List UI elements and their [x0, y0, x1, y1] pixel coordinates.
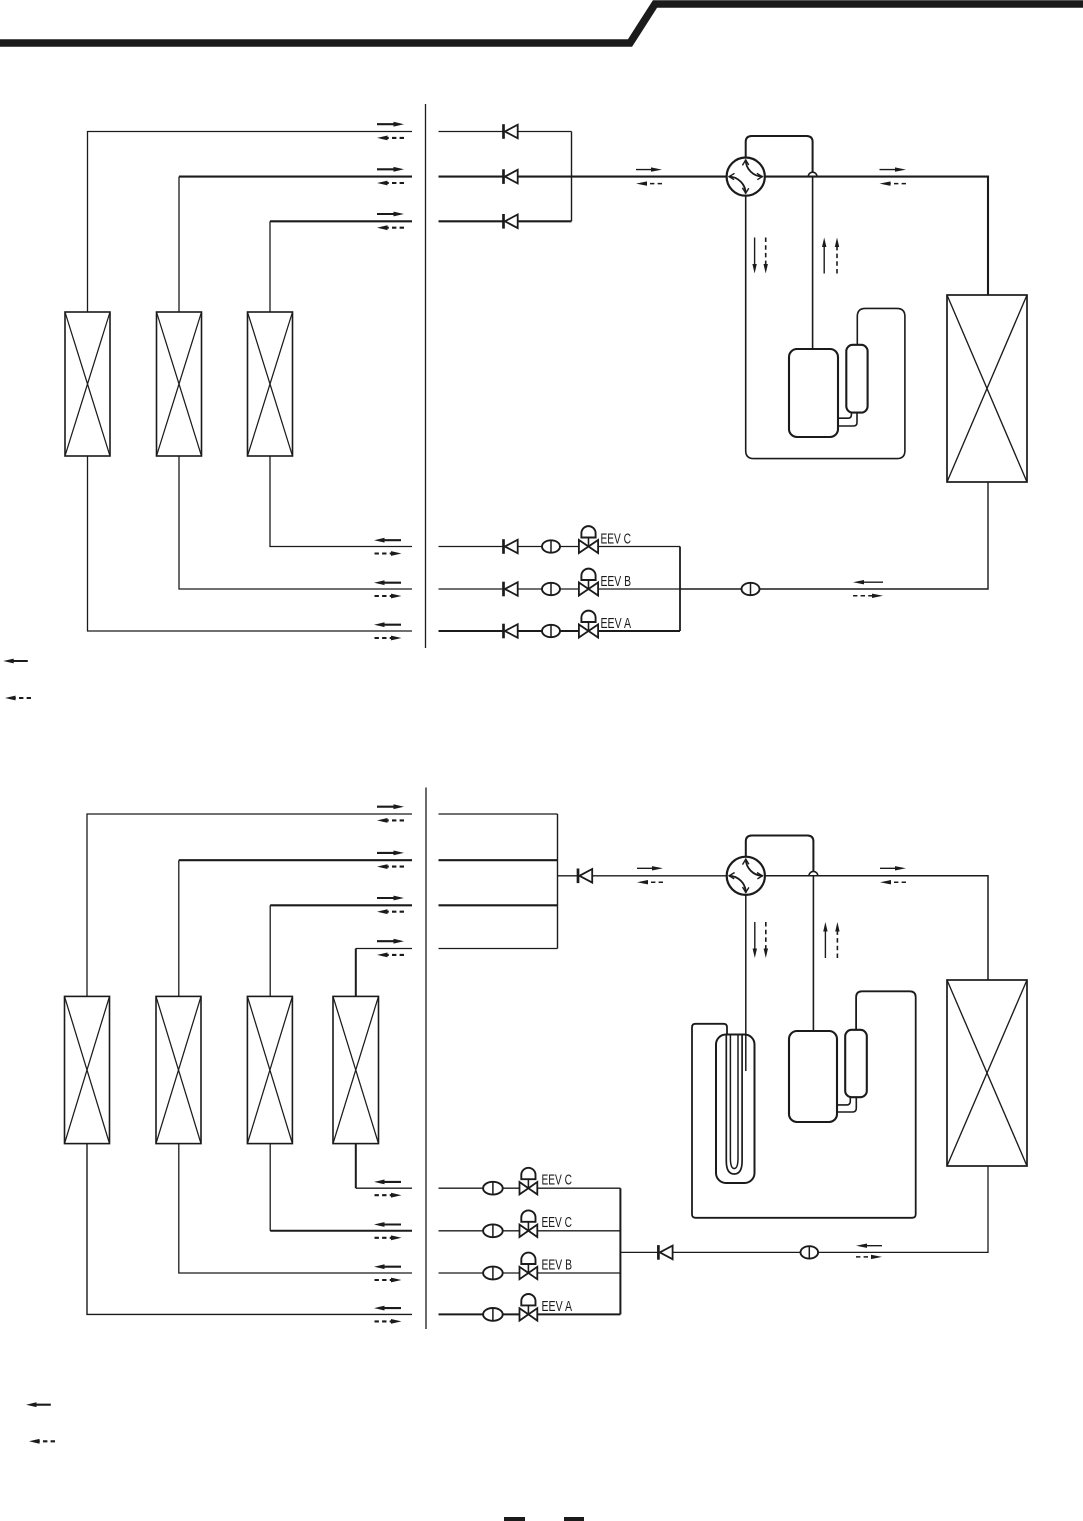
flow arrow (heating, dashed right) — [856, 1255, 882, 1259]
pipe: unit C1 liquid riser — [269, 1144, 271, 1231]
pipe: unit C1 liquid line (bold) — [270, 1230, 412, 1232]
flow arrow (cooling, solid right) — [377, 896, 404, 901]
pipe: main gas line to outdoor HX (system 2) — [765, 876, 988, 980]
flow arrow (heating, dashed right) — [375, 636, 402, 641]
indoor heat exchanger unit C2 (system 2) — [333, 996, 379, 1143]
label EEV C (system 2) — [542, 1215, 573, 1231]
flow arrow (cooling, solid right) — [377, 939, 404, 944]
flow arrow (cooling, solid left) — [374, 580, 401, 585]
pipe: accumulator to compressor (outer) — [838, 413, 851, 419]
check valve (liquid line, system 2) — [658, 1245, 672, 1260]
flow arrow down (solid, suction) — [753, 922, 757, 958]
pipe: liquid line from outdoor HX (system 2) — [818, 1166, 988, 1252]
check valve (gas line 1) — [504, 124, 518, 139]
pipe: unit A gas line (indoor side) — [88, 132, 413, 313]
pipe: compressor discharge riser — [812, 177, 814, 350]
flow arrow (heating, dashed right) — [375, 594, 402, 599]
electronic expansion valve EEV B — [579, 569, 598, 596]
flow arrow (cooling, solid left) — [374, 1264, 401, 1269]
check valve (main gas line) — [578, 869, 592, 884]
svg-text:EEV B: EEV B — [601, 574, 632, 590]
electronic expansion valve EEV A — [579, 611, 598, 638]
pipe: suction loop (vessel to accumulator, system 2) — [692, 991, 916, 1218]
flow arrow (heating, dashed left) — [377, 953, 404, 958]
pipe: unit C2 gas riser (bold) — [355, 949, 357, 997]
pipe: liquid line from outdoor HX — [759, 482, 988, 589]
check valve (EEV A branch) — [504, 624, 518, 639]
pipe: unit B gas riser — [178, 177, 180, 312]
4-way reversing valve (system 2) — [727, 857, 765, 895]
pipe: unit A liquid line — [88, 456, 413, 631]
indoor heat exchanger unit B (system 2) — [156, 996, 201, 1143]
pipe: main gas line to 4-way valve — [572, 176, 727, 178]
pipe: unit C1 gas line (bold) — [270, 904, 412, 906]
gas-liquid separator vessel (system 2) — [716, 1035, 755, 1184]
pipe: liquid branch EEV C (outdoor side, system 2) — [439, 1230, 621, 1232]
flow arrow (heating, dashed right) — [853, 594, 883, 598]
indoor heat exchanger unit B (system 1) — [157, 312, 202, 456]
pipe: gas stub 2 (outdoor side, bold) — [439, 859, 558, 861]
pipe: unit C gas riser — [269, 221, 271, 312]
pipe: accumulator to compressor (inner) — [838, 413, 857, 426]
indoor heat exchanger unit C1 (system 2) — [247, 996, 292, 1143]
flow arrow (cooling, solid right) — [377, 804, 404, 809]
pipe: liquid branch EEV A (outdoor side, system 2) — [439, 1313, 621, 1315]
footer mark right — [564, 1517, 584, 1521]
pipe: liquid branch EEV A (outdoor side) — [439, 630, 681, 632]
pipe: gas line 2 (outdoor side, bold) — [439, 176, 572, 178]
flow arrow (cooling, solid right) — [377, 167, 404, 172]
electronic expansion valve EEV C (system 2) — [520, 1210, 538, 1237]
compressor (system 1) — [789, 349, 838, 437]
pipe: liquid branch EEV C (outdoor side) — [439, 546, 681, 548]
flow arrow (heating, dashed right) — [375, 1193, 402, 1198]
check valve (gas line 3) — [504, 214, 518, 229]
page header band — [0, 4, 1083, 43]
pipe: discharge loop over 4-way valve — [746, 136, 813, 172]
pipe: unit A gas line (system 2) — [87, 814, 412, 996]
accumulator (system 1) — [846, 345, 867, 413]
flow arrow up (solid, discharge) — [823, 922, 827, 958]
flow arrow (heating, dashed left) — [377, 909, 404, 914]
flow arrow (cooling, solid right) — [377, 212, 404, 217]
electronic expansion valve EEV C — [579, 526, 598, 553]
4-way reversing valve (system 1) — [727, 158, 765, 196]
pipe: gas stub 4 (outdoor side) — [439, 948, 558, 950]
indoor heat exchanger unit C (system 1) — [248, 312, 293, 456]
pipe: compressor discharge riser (system 2) — [812, 876, 814, 1032]
svg-text:EEV C: EEV C — [542, 1173, 573, 1189]
flow arrow up (dashed) — [835, 922, 839, 958]
pipe: gas stub 3 (outdoor side, bold) — [439, 904, 558, 906]
strainer (EEV C branch, system 2) — [483, 1182, 503, 1195]
pipe: unit C liquid line — [270, 456, 412, 547]
electronic expansion valve EEV C (system 2) — [520, 1168, 538, 1195]
label EEV B (system 2) — [542, 1257, 573, 1273]
flow arrow (heating, dashed left) — [377, 136, 404, 141]
compressor (system 2) — [789, 1031, 837, 1122]
flow arrow (heating, dashed right) — [375, 1235, 402, 1240]
pipe: liquid header bus — [679, 547, 681, 632]
flow arrow (cooling, solid right) — [880, 866, 906, 870]
flow arrow (cooling, solid left) — [374, 538, 401, 543]
flow arrow (cooling, solid left) — [853, 580, 883, 584]
pipe: unit B liquid line (system 2) — [179, 1144, 412, 1273]
pipe: gas header bus — [571, 132, 573, 222]
pipe: accumulator to compressor (outer, system 2) — [837, 1097, 850, 1105]
legend arrow: heating (dashed, system 2) — [29, 1439, 55, 1444]
flow arrow (cooling, solid right) — [637, 866, 663, 870]
flow arrow (heating, dashed left) — [636, 181, 662, 185]
check valve (gas line 2) — [504, 169, 518, 184]
indoor heat exchanger unit A (system 2) — [65, 996, 110, 1143]
flow arrow (heating, dashed left) — [377, 818, 404, 823]
flow arrow down (dashed) — [764, 238, 768, 274]
pipe: accumulator to compressor (inner, system 2) — [837, 1097, 856, 1112]
accumulator (system 2) — [845, 1030, 867, 1097]
pipe: unit B liquid line — [179, 456, 412, 589]
flow arrow (heating, dashed right) — [375, 551, 402, 556]
indoor/outdoor separation line (system 1) — [425, 104, 427, 648]
legend arrow: cooling (solid) — [3, 659, 28, 664]
pipe: 4-way valve to separator vessel — [745, 895, 747, 1071]
flow arrow (cooling, solid left) — [374, 1180, 401, 1185]
flow arrow (heating, dashed left) — [377, 864, 404, 869]
pipe: gas stub 1 (outdoor side) — [439, 813, 558, 815]
pipe: unit C2 liquid riser (bold) — [355, 1144, 357, 1189]
svg-text:EEV A: EEV A — [542, 1299, 573, 1315]
svg-text:EEV C: EEV C — [601, 531, 632, 547]
flow arrow (heating, dashed left) — [637, 880, 663, 884]
pipe: discharge loop over 4-way valve (system 2) — [746, 836, 814, 872]
pipe: main gas line to check valve — [558, 875, 579, 877]
outdoor heat exchanger (system 1) — [947, 295, 1027, 482]
flow arrow (cooling, solid right) — [636, 167, 662, 171]
pipe: main gas line to outdoor HX — [765, 177, 988, 295]
pipe: gas header bus (system 2) — [557, 814, 559, 949]
legend arrow: cooling (solid, system 2) — [26, 1402, 51, 1407]
flow arrow (cooling, solid left) — [374, 1222, 401, 1227]
flow arrow (heating, dashed left) — [880, 181, 907, 185]
pipe: unit C1 gas riser — [269, 905, 271, 996]
strainer (EEV C branch) — [542, 540, 560, 552]
flow arrow (cooling, solid right) — [377, 851, 404, 856]
pipe: unit B gas line (bold) — [179, 859, 412, 861]
flow arrow down (dashed) — [764, 922, 768, 958]
indoor heat exchanger unit A (system 1) — [65, 312, 110, 456]
pipe: gas line 1 (outdoor side) — [439, 131, 572, 133]
pipe: gas line 3 (outdoor side, bold) — [439, 220, 572, 222]
strainer (EEV C branch, system 2) — [483, 1224, 503, 1237]
strainer (EEV A branch, system 2) — [483, 1308, 503, 1321]
flow arrow (cooling, solid left) — [374, 622, 401, 627]
pipe: liquid branch EEV B (outdoor side) — [439, 588, 681, 590]
outdoor heat exchanger (system 2) — [947, 980, 1027, 1166]
label EEV B — [601, 574, 632, 590]
flow arrow (cooling, solid left) — [856, 1244, 882, 1248]
pipe: liquid branch EEV B (outdoor side, system 2) — [439, 1272, 621, 1274]
flow arrow up (dashed) — [835, 238, 839, 274]
flow arrow (heating, dashed left) — [377, 181, 404, 186]
check valve (EEV C branch) — [504, 539, 518, 554]
flow arrow (cooling, solid right) — [880, 167, 907, 171]
strainer (EEV A branch) — [542, 625, 560, 637]
pipe: liquid header to check valve — [620, 1251, 658, 1253]
pipe: liquid branch EEV C (outdoor side, system 2) — [439, 1187, 621, 1189]
strainer (liquid line, system 2) — [801, 1246, 819, 1258]
pipe: liquid header bus (system 2) — [619, 1188, 621, 1314]
strainer (EEV B branch) — [542, 583, 560, 595]
pipe: main gas line to 4-way valve (system 2) — [592, 875, 726, 877]
electronic expansion valve EEV B (system 2) — [520, 1253, 538, 1280]
svg-text:EEV B: EEV B — [542, 1257, 573, 1273]
flow arrow (heating, dashed left) — [377, 225, 404, 230]
footer mark left — [504, 1517, 525, 1521]
flow arrow (heating, dashed right) — [375, 1319, 402, 1324]
strainer (EEV B branch, system 2) — [483, 1267, 503, 1280]
pipe crossing hop (system 2) — [809, 871, 818, 875]
svg-text:EEV C: EEV C — [542, 1215, 573, 1231]
pipe: suction loop (4-way valve to accumulator) — [746, 196, 905, 459]
label EEV C (system 2) — [542, 1173, 573, 1189]
indoor/outdoor separation line (system 2) — [425, 788, 427, 1330]
pipe: unit B gas riser (system 2) — [178, 860, 180, 996]
flow arrow (cooling, solid left) — [374, 1306, 401, 1311]
check valve (EEV B branch) — [504, 582, 518, 597]
electronic expansion valve EEV A (system 2) — [520, 1294, 538, 1321]
strainer (liquid line) — [742, 583, 760, 595]
flow arrow (heating, dashed left) — [880, 880, 906, 884]
pipe crossing hop — [808, 172, 817, 176]
pipe: unit A liquid line (system 2) — [87, 1144, 412, 1315]
legend arrow: heating (dashed) — [5, 696, 31, 701]
pipe: liquid line to EEV header — [680, 588, 742, 590]
separator internal U-tube (outer wall) — [726, 1036, 742, 1175]
separator internal U-tube (inner wall) — [730, 1036, 738, 1169]
pipe: unit C2 liquid line — [356, 1187, 412, 1189]
label EEV A — [601, 616, 632, 632]
svg-text:EEV A: EEV A — [601, 616, 632, 632]
pipe: unit B gas line (bold) — [179, 176, 412, 178]
flow arrow (cooling, solid right) — [377, 122, 404, 127]
pipe: unit C gas line (bold) — [270, 220, 412, 222]
pipe: unit C2 gas line — [356, 948, 412, 950]
label EEV A (system 2) — [542, 1299, 573, 1315]
flow arrow (heating, dashed right) — [375, 1278, 402, 1283]
flow arrow up (solid, discharge) — [822, 238, 826, 274]
label EEV C — [601, 531, 632, 547]
pipe: liquid line to strainer — [673, 1251, 801, 1253]
flow arrow down (solid, suction) — [752, 238, 756, 274]
